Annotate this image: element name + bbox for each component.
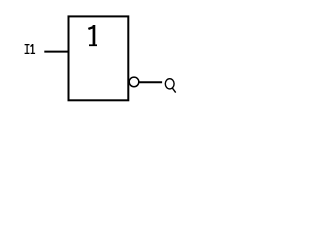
wire: bubble to output Q <box>140 81 163 83</box>
gate function label "1" <box>88 25 97 46</box>
inversion bubble on output <box>129 77 139 87</box>
input label I1 <box>25 44 35 54</box>
output node label Q <box>165 79 175 93</box>
gate U1 body (IEC NOT-gate rectangle) <box>69 16 129 100</box>
wire: input I1 to gate <box>44 51 68 53</box>
